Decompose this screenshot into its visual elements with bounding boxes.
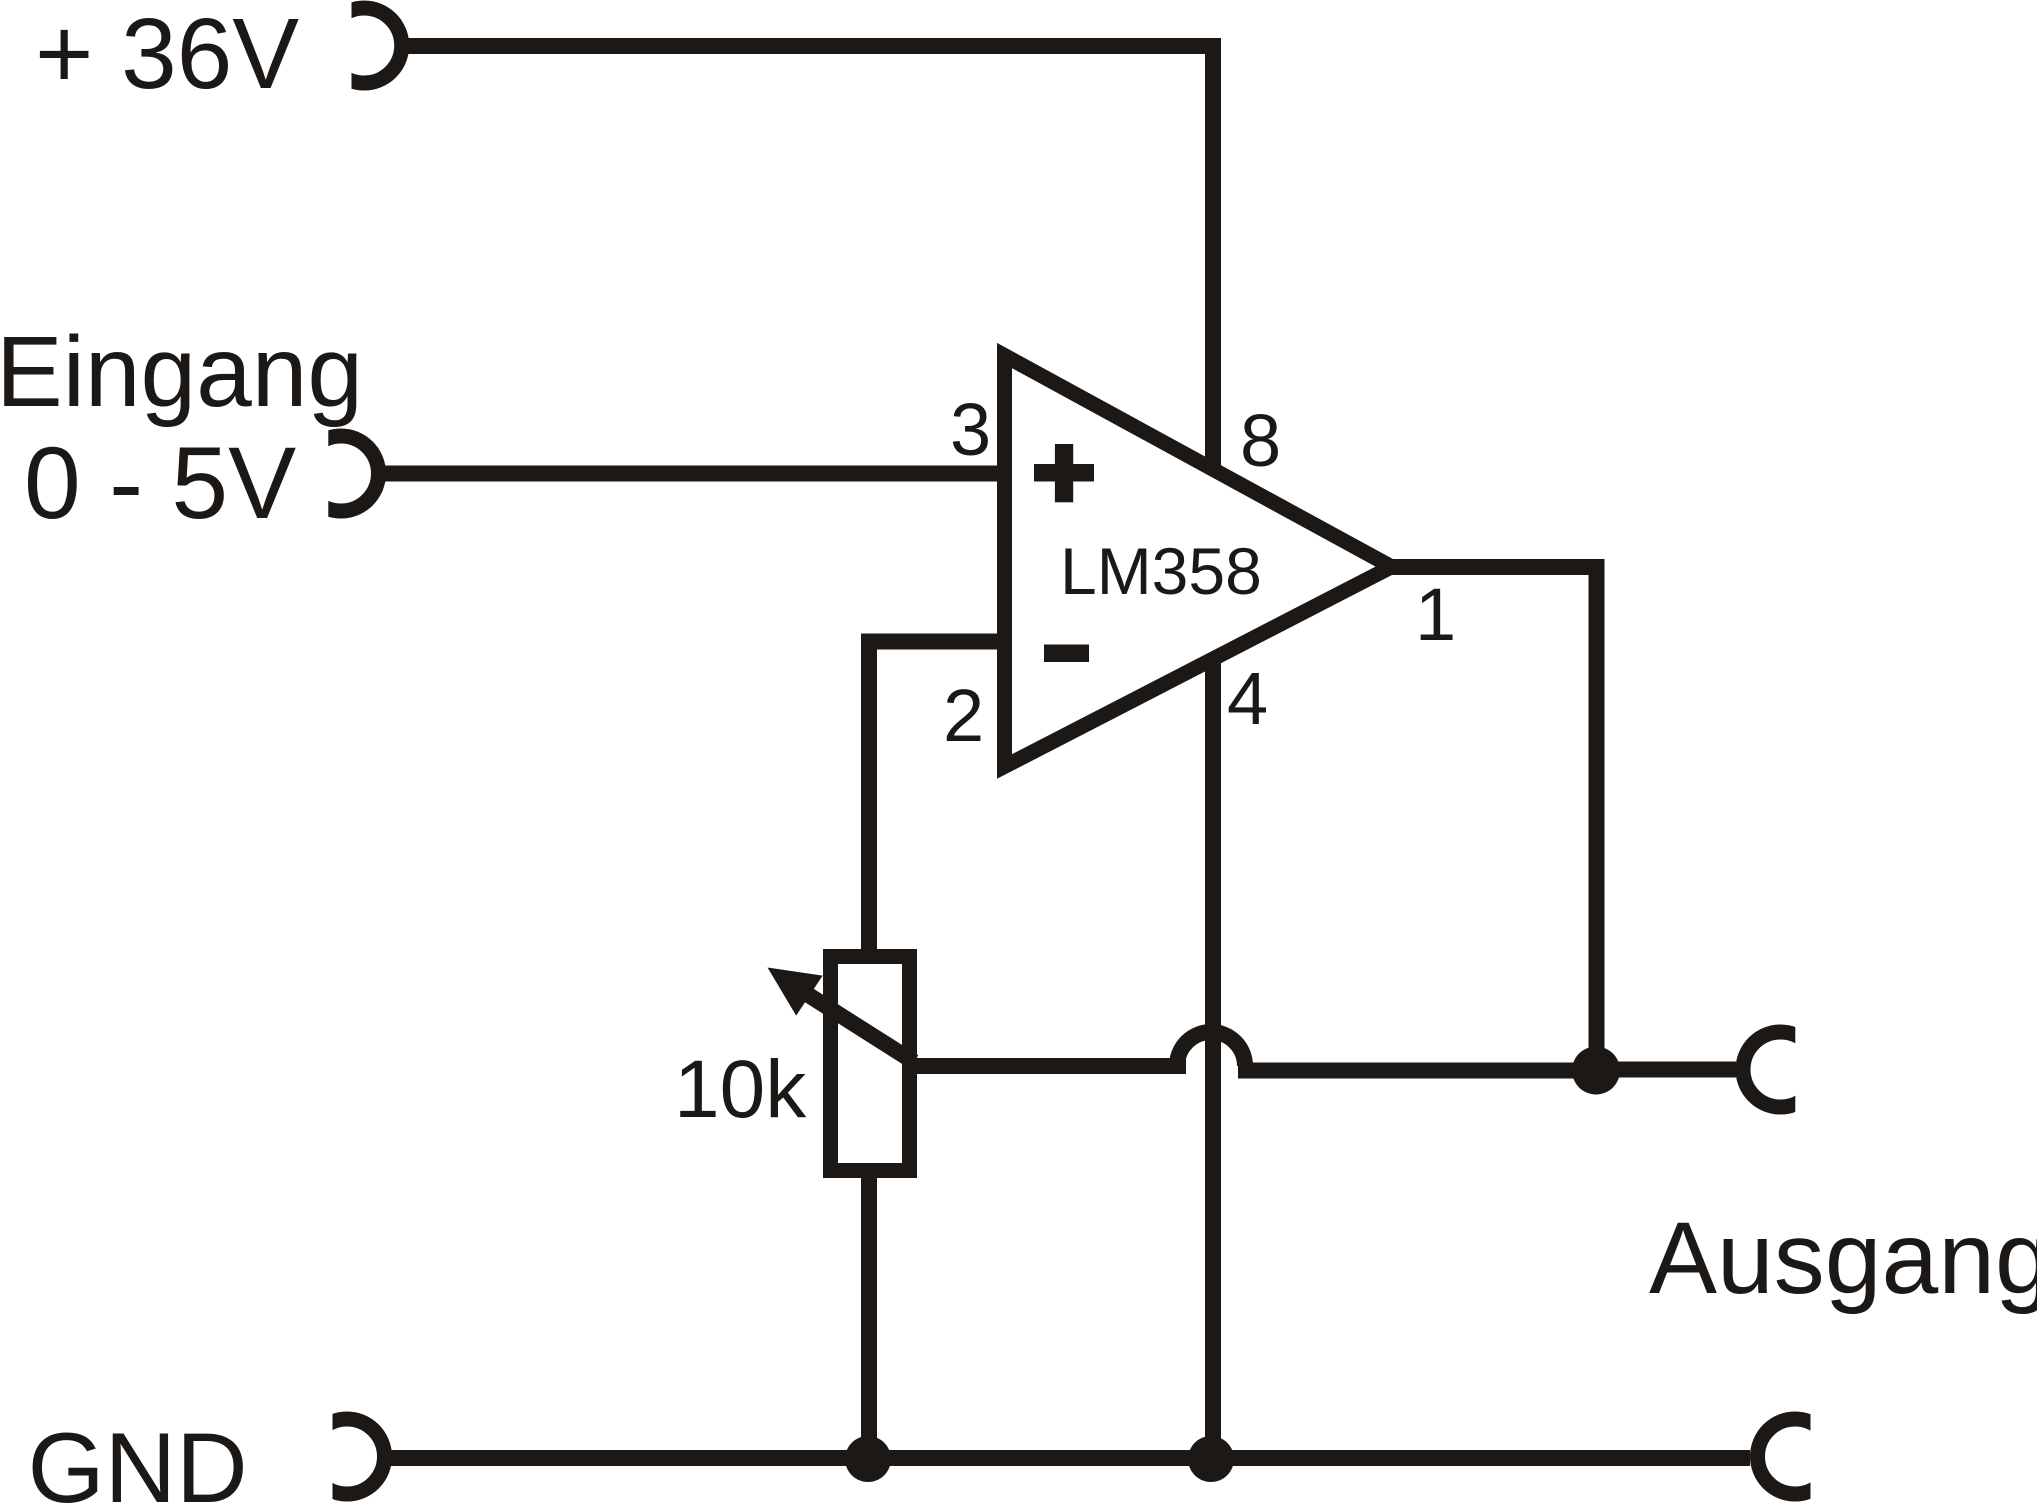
terminal input opening cut [288, 420, 328, 530]
terminal GND right (ring) [1758, 1419, 1833, 1494]
svg-text:+ 36V: + 36V [35, 0, 299, 110]
svg-text:Ausgang: Ausgang [1649, 1201, 2037, 1315]
junction dot: output node [1572, 1047, 1620, 1095]
wire inverting input: pin 2 left then down to potentiometer top [869, 642, 1006, 959]
terminal +36V opening cut [300, 0, 352, 100]
wire GND rail [391, 1450, 1750, 1466]
svg-text:0 - 5V: 0 - 5V [24, 426, 296, 540]
terminal GND left opening cut [292, 1402, 333, 1504]
terminal +36V (ring) [327, 8, 402, 83]
terminal GND left (ring) [310, 1419, 385, 1494]
op-amp U1 LM358 triangle [1005, 356, 1392, 767]
svg-text:3: 3 [950, 388, 991, 471]
wire hop bridge over pin 4 line [1177, 1032, 1245, 1066]
svg-text:LM358: LM358 [1060, 534, 1262, 608]
svg-text:1: 1 [1415, 573, 1456, 656]
wire input: terminal to pin 3 (+ input) [384, 466, 1006, 482]
svg-text:10k: 10k [674, 1044, 807, 1135]
op-amp noninverting + marker [1034, 444, 1094, 502]
svg-text:Eingang: Eingang [0, 316, 363, 428]
svg-text:4: 4 [1227, 657, 1268, 740]
terminal input 0-5V (ring) [304, 436, 379, 511]
wire feedback: output apex right then down to output node [1390, 567, 1597, 1071]
terminal output Ausgang (ring) [1743, 1032, 1818, 1107]
svg-text:8: 8 [1240, 399, 1281, 482]
wire +36V rail: terminal to pin 8 (horizontal then vertical) [408, 46, 1213, 468]
wire hop to output node (right segment) [1238, 1063, 1598, 1079]
junction dot: pin 4 / GND [1188, 1436, 1234, 1482]
junction dot: potentiometer bottom / GND [845, 1436, 891, 1482]
wire pin 4 down to GND rail [1205, 655, 1221, 1459]
terminal output opening cut [1795, 1015, 1840, 1127]
wire wiper to hop (left segment) [914, 1058, 1186, 1074]
potentiometer R1 body [831, 957, 910, 1171]
wire potentiometer bottom to GND rail [861, 1170, 877, 1459]
terminal GND right opening cut [1811, 1402, 1856, 1504]
wire output node to output terminal [1597, 1062, 1737, 1078]
potentiometer wiper arrowhead [768, 968, 823, 1016]
svg-text:GND: GND [28, 1412, 248, 1504]
potentiometer wiper shaft [803, 991, 914, 1062]
op-amp inverting - marker [1044, 645, 1089, 663]
svg-text:2: 2 [943, 674, 984, 757]
